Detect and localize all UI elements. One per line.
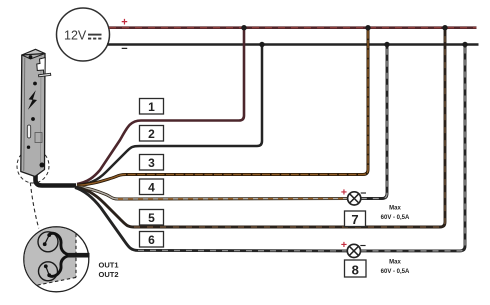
svg-text:+: + bbox=[341, 187, 347, 199]
wire 4 (striped gray/orange, bundle to lamp 7) bbox=[77, 187, 348, 200]
svg-text:Max: Max bbox=[389, 206, 401, 212]
junction dot lamp7-return/-bus bbox=[384, 42, 389, 47]
- terminal label bbox=[121, 43, 127, 55]
svg-text:4: 4 bbox=[148, 181, 155, 195]
dashed callout line bbox=[30, 183, 39, 229]
lamp 8 bbox=[347, 244, 360, 257]
terminal box 4 bbox=[140, 179, 164, 195]
svg-text:12V: 12V bbox=[64, 28, 87, 42]
svg-text:7: 7 bbox=[351, 212, 358, 227]
terminal box 2 bbox=[140, 126, 164, 142]
device screw holes bbox=[29, 55, 33, 59]
device slot bbox=[27, 125, 30, 138]
magnifier detail circle bbox=[18, 226, 89, 292]
junction dot wire2/-bus bbox=[259, 42, 264, 47]
junction dot wire3/+bus bbox=[365, 25, 370, 30]
wire 3 (brown, bundle to + bus via right) bbox=[77, 28, 368, 186]
wire 1 (dark red, bundle to + bus) bbox=[77, 28, 244, 184]
power source 12V bbox=[57, 8, 110, 61]
svg-text:8: 8 bbox=[352, 263, 359, 278]
device lightning bolt bbox=[28, 90, 37, 110]
svg-text:−: − bbox=[360, 240, 366, 252]
magnifier terminal circle OUT1 bbox=[38, 232, 58, 252]
+ terminal label bbox=[121, 17, 127, 29]
svg-text:OUT1: OUT1 bbox=[99, 261, 119, 270]
svg-text:1: 1 bbox=[148, 100, 155, 114]
magnifier cable stub bbox=[67, 253, 90, 258]
cable bundle (thick cable from device) bbox=[36, 171, 77, 186]
wire 5 (dark brown, bundle to + bus far right) bbox=[76, 28, 445, 227]
magnifier wire to OUT1 bbox=[43, 233, 68, 254]
terminal box 3 bbox=[140, 155, 164, 171]
svg-text:60V - 0,5A: 60V - 0,5A bbox=[381, 215, 410, 221]
wire lamp8 return (gray, lamp 8 to - bus) bbox=[361, 45, 466, 251]
svg-text:5: 5 bbox=[148, 211, 155, 225]
magnifier terminal circle OUT2 bbox=[39, 262, 58, 281]
lamp 7 + label bbox=[341, 187, 347, 199]
svg-text:−: − bbox=[360, 188, 366, 200]
magnifier wire to OUT2 bbox=[44, 256, 68, 277]
svg-text:60V - 0,5A: 60V - 0,5A bbox=[381, 269, 410, 275]
svg-text:6: 6 bbox=[148, 233, 155, 247]
OUT1 label bbox=[99, 261, 119, 270]
wire lamp7 return (gray, lamp 7 to - bus) bbox=[361, 45, 387, 199]
wire + bus (12V positive, dark red) bbox=[109, 26, 477, 29]
dashed zoom ellipse around cable bend bbox=[17, 149, 49, 183]
OUT2 label bbox=[99, 270, 119, 279]
svg-text:3: 3 bbox=[148, 156, 155, 170]
Max rating label lamp 7 bbox=[381, 206, 410, 221]
svg-text:2: 2 bbox=[148, 127, 155, 141]
junction dot lamp8-return/-bus bbox=[462, 42, 467, 47]
electric strike device bbox=[21, 49, 51, 176]
Max rating label lamp 8 bbox=[381, 260, 410, 275]
device notch cutout bbox=[37, 58, 45, 75]
junction dot wire5/+bus bbox=[442, 25, 447, 30]
wire - bus (12V negative, black) bbox=[107, 43, 479, 45]
wire 2 (black, bundle to - bus) bbox=[77, 45, 262, 185]
junction dot wire1/+bus bbox=[241, 25, 246, 30]
svg-text:+: + bbox=[341, 239, 347, 251]
lamp 7 bbox=[348, 192, 361, 205]
terminal box 1 bbox=[140, 99, 164, 115]
svg-text:OUT2: OUT2 bbox=[99, 270, 119, 279]
terminal box 6 bbox=[140, 232, 164, 248]
terminal box 5 bbox=[140, 210, 164, 226]
lamp 8 - label bbox=[360, 240, 366, 252]
lamp 7 - label bbox=[360, 188, 366, 200]
terminal box 8 bbox=[345, 260, 367, 278]
wire 6 (gray striped, bundle to lamp 8) bbox=[75, 188, 348, 251]
terminal box 7 bbox=[345, 211, 366, 227]
lamp 8 + label bbox=[341, 239, 347, 251]
svg-text:Max: Max bbox=[389, 260, 401, 266]
